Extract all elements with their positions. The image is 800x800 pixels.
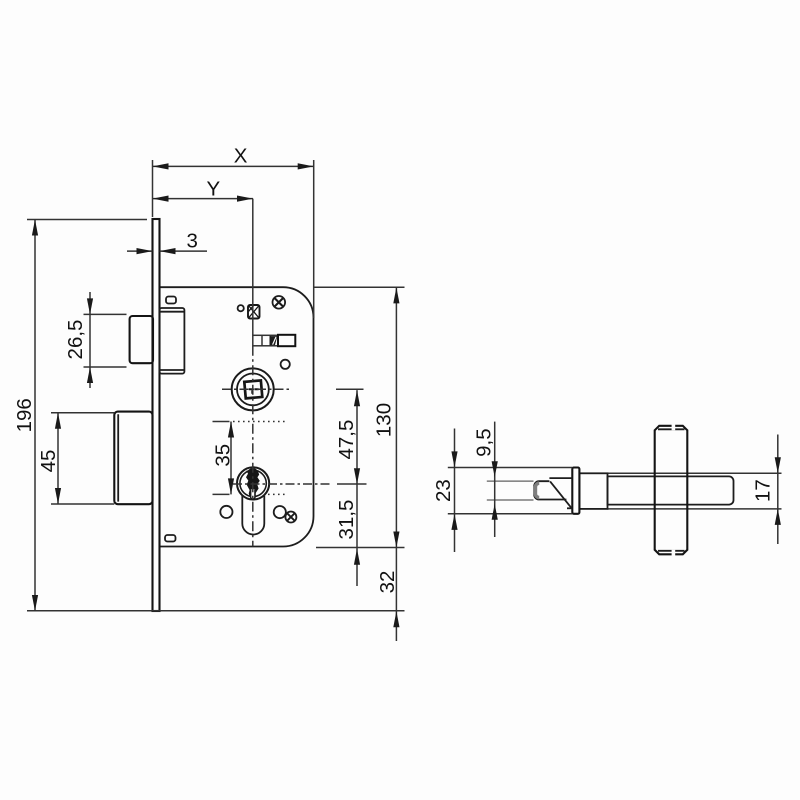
svg-text:9,5: 9,5 bbox=[472, 428, 495, 457]
svg-text:31,5: 31,5 bbox=[335, 500, 358, 540]
reference line 35 top (dotted) bbox=[213, 421, 287, 423]
svg-text:3: 3 bbox=[186, 230, 197, 253]
side view: latch head bevel top line bbox=[549, 477, 572, 479]
reference line 35 bottom (dotted) bbox=[213, 493, 288, 495]
spindle square hole bbox=[244, 380, 262, 398]
dimension 23 bbox=[432, 429, 458, 553]
small pin circle bbox=[238, 305, 244, 311]
side view: latch bevel diagonal bbox=[550, 481, 572, 508]
extension line case bottom right bbox=[316, 547, 405, 549]
dimension 45 bbox=[37, 413, 61, 504]
centerline follower horizontal bbox=[222, 388, 364, 390]
deadbolt (front view) bbox=[114, 412, 152, 505]
side view: latch collar bbox=[579, 473, 607, 509]
extension line bottom shared (196 / 32) bbox=[27, 610, 405, 612]
side view: latch shaft bbox=[608, 476, 734, 504]
hatched stop square bbox=[248, 305, 260, 319]
svg-text:X: X bbox=[234, 145, 248, 168]
extension line 196 top bbox=[27, 219, 147, 221]
svg-text:130: 130 bbox=[372, 403, 395, 437]
keyway dark profile bbox=[246, 468, 260, 499]
svg-text:196: 196 bbox=[13, 398, 36, 432]
svg-text:32: 32 bbox=[376, 571, 399, 594]
side view: 17-extension top line bbox=[608, 472, 782, 474]
euro cylinder circles bbox=[237, 467, 269, 499]
extension ticks 9,5 bbox=[487, 481, 534, 500]
notch bottom on case bbox=[165, 535, 176, 542]
svg-text:47,5: 47,5 bbox=[335, 420, 358, 460]
dimension 9,5 bbox=[472, 422, 498, 537]
latch bolt head (front view) bbox=[130, 316, 153, 363]
side view: faceplate edge bbox=[572, 468, 579, 514]
side view: spindle bar bbox=[655, 424, 688, 555]
fixing hole right bbox=[274, 506, 286, 518]
dimension 130 and 32 line bbox=[372, 287, 399, 641]
screw head bottom bbox=[285, 512, 296, 523]
side view: latch tip shading bbox=[535, 483, 539, 497]
dimension Y bbox=[153, 177, 254, 201]
dimension 17 bbox=[751, 435, 781, 545]
fixing hole left bbox=[220, 506, 232, 518]
latch actuator slot bbox=[253, 335, 295, 346]
svg-text:35: 35 bbox=[211, 444, 234, 467]
dimension 47,5 and 31,5 line bbox=[335, 390, 360, 586]
centerline cylinder horizontal bbox=[233, 483, 367, 485]
extension lines 23 (side view) bbox=[448, 468, 573, 514]
dimension 35 bbox=[211, 422, 234, 495]
extension lines 26.5 bbox=[84, 314, 127, 367]
dimension 26,5 bbox=[64, 292, 93, 388]
dimension X bbox=[153, 145, 314, 170]
side view: latch head tip bbox=[534, 481, 566, 499]
centerline vertical through lock bbox=[252, 199, 254, 547]
svg-text:17: 17 bbox=[751, 479, 774, 502]
svg-text:26,5: 26,5 bbox=[64, 320, 87, 360]
extension verticals X dim bbox=[153, 160, 314, 318]
screw head top bbox=[273, 296, 286, 309]
follower hub outer circle bbox=[232, 368, 274, 410]
side view: 17-extension bottom line bbox=[608, 508, 782, 510]
lock case body bbox=[160, 287, 314, 546]
svg-text:23: 23 bbox=[432, 479, 455, 502]
faceplate (front view) bbox=[153, 219, 160, 611]
notch top on case bbox=[166, 297, 176, 304]
extension lines 45 bbox=[51, 413, 114, 504]
euro cylinder lower body bbox=[242, 496, 264, 535]
pin circle right of follower bbox=[281, 360, 290, 369]
dimension 3 (faceplate thickness) bbox=[127, 230, 207, 255]
latch bolt rear guide bbox=[160, 308, 185, 374]
svg-text:45: 45 bbox=[37, 450, 60, 473]
svg-text:Y: Y bbox=[207, 177, 221, 200]
extension line case top right (130) bbox=[314, 286, 405, 288]
dimension 196 bbox=[13, 220, 38, 612]
